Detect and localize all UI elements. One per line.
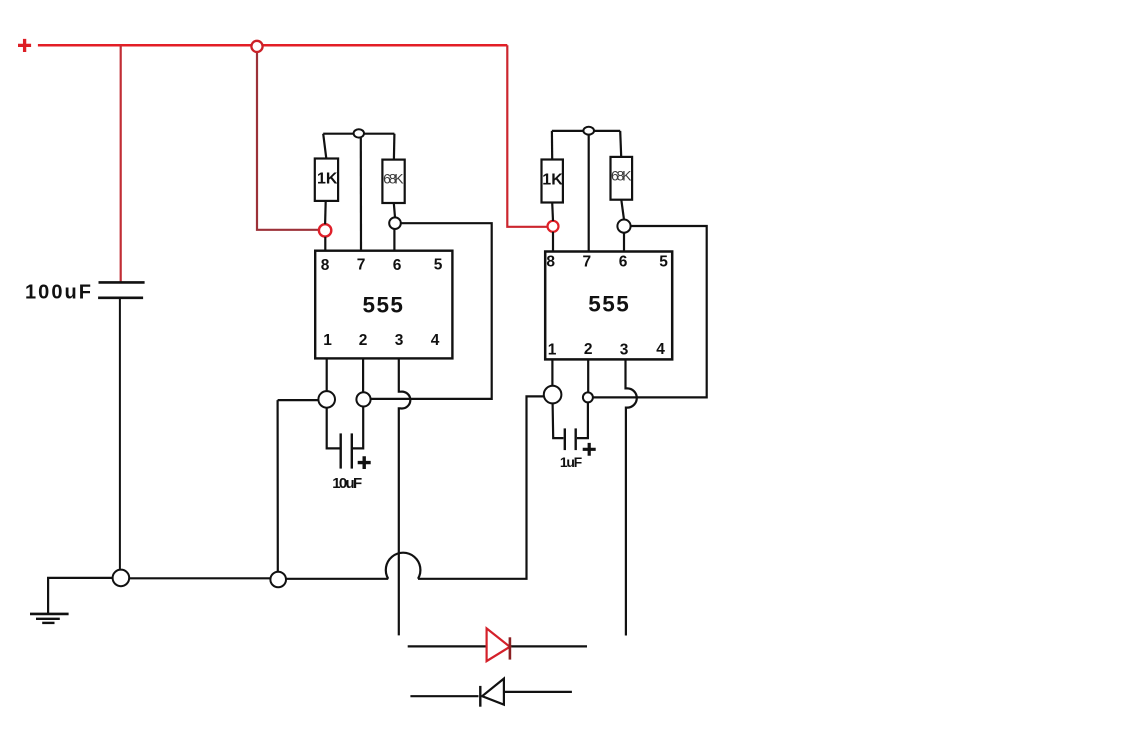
svg-text:7: 7 (357, 256, 366, 273)
wire ground bus (129, 577, 270, 579)
svg-text:68K: 68K (383, 170, 404, 186)
wire U2 pin1 stub (551, 359, 553, 385)
diode D2 (482, 679, 504, 705)
capacitor C2 10uF (327, 408, 340, 449)
IC U1 555 (315, 251, 452, 359)
node U1 pin8 terminal (319, 224, 331, 236)
node V+ junction (251, 41, 262, 52)
svg-text:555: 555 (588, 292, 629, 317)
svg-text:3: 3 (620, 342, 629, 359)
svg-text:1: 1 (548, 342, 557, 359)
wire V+ drop to U2 pin8 (507, 45, 547, 227)
IC U2 555 (545, 252, 672, 360)
node U2 pin6 junction (617, 220, 630, 233)
svg-text:4: 4 (431, 332, 440, 349)
wire R3/R4 top rail (552, 130, 620, 132)
svg-text:7: 7 (582, 254, 591, 271)
svg-text:1K: 1K (317, 171, 338, 188)
wire U2 pin2 stub (587, 359, 589, 392)
svg-text:1K: 1K (542, 172, 563, 189)
node U2 pin2 terminal (583, 392, 593, 402)
svg-text:555: 555 (362, 293, 403, 318)
wire U1 pin8 stub (324, 237, 326, 251)
node U1 pin6 junction (389, 217, 401, 229)
svg-text:2: 2 (584, 341, 593, 358)
node U2 pin1 terminal (544, 386, 562, 404)
diode D2 wires (410, 692, 572, 696)
svg-text:8: 8 (546, 254, 555, 271)
node U1 pin2 terminal (356, 392, 370, 406)
capacitor C3 1uF (553, 403, 564, 438)
wire U1 pin2 stub (362, 358, 364, 392)
svg-text:68K: 68K (611, 168, 632, 184)
capacitor C1 100uF (98, 282, 145, 297)
U1 pin labels bottom (323, 332, 439, 349)
svg-text:100uF: 100uF (25, 281, 91, 303)
svg-text:6: 6 (619, 254, 628, 271)
wire bus junction to omega hop (286, 578, 388, 580)
wire bus to U2 pin1 (418, 396, 544, 578)
wire U2 pin3 with hop (626, 359, 637, 635)
diode D1 wires (408, 645, 587, 647)
node ground junction (113, 570, 130, 587)
svg-text:2: 2 (359, 332, 368, 349)
svg-text:10uF: 10uF (332, 475, 362, 492)
wire 100uF to ground node (119, 298, 121, 570)
wire hop over pin3 line (386, 553, 421, 579)
wire R1/R2 top rail (323, 133, 394, 135)
resistor R4 68K (620, 131, 621, 157)
svg-text:3: 3 (395, 332, 404, 349)
U1 pin labels top (321, 256, 443, 273)
wire U2 pin6 loop to pin2 (593, 226, 707, 397)
wire U2 pin7 from resistor junction (588, 134, 590, 251)
wire V+ top horizontal (38, 44, 507, 47)
wire junction to U1 pin8 (257, 53, 318, 230)
wire to ground symbol (48, 578, 113, 613)
ground (30, 614, 69, 623)
resistor R2 68K (393, 134, 396, 160)
node ground bus junction (270, 572, 286, 588)
svg-text:1: 1 (323, 332, 332, 349)
wire U1 pin7 from resistor junction (360, 138, 362, 251)
resistor R3 1K (551, 131, 553, 160)
wire U1 pin6 stub (393, 229, 395, 251)
U2 pin labels top (546, 254, 668, 271)
node U2 pin8 terminal (548, 221, 559, 232)
svg-text:8: 8 (321, 257, 330, 274)
wire U1 pin1 stub (326, 358, 328, 391)
U2 pin labels bottom (548, 341, 666, 359)
node R3/R4 rail junction (583, 127, 594, 135)
resistor R1 1K (323, 134, 326, 159)
svg-text:5: 5 (434, 256, 443, 273)
svg-text:6: 6 (393, 257, 402, 274)
wire U1 pin3 with hop (399, 358, 411, 635)
node U1 pin1 terminal (318, 391, 335, 408)
svg-text:5: 5 (659, 254, 668, 271)
svg-text:4: 4 (656, 341, 665, 358)
diode D1 (red LED) (487, 628, 510, 661)
wire U2 pin8 stub (552, 232, 554, 252)
node R1/R2 rail junction (354, 129, 364, 137)
wire U1 pin6 loop to pin2 (370, 223, 491, 399)
wire V+ drop to 100uF (120, 45, 122, 282)
wire U1 pin1 drop to bus (278, 400, 319, 572)
power terminal + (18, 39, 31, 52)
wire U2 pin6 stub (623, 233, 625, 252)
svg-text:1uF: 1uF (560, 454, 583, 470)
